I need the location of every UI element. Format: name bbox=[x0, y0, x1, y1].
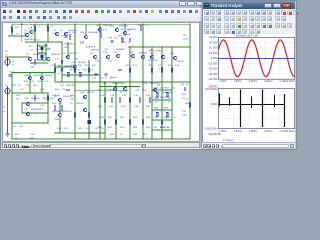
ground bbox=[6, 134, 10, 136]
svg-text:R19: R19 bbox=[16, 95, 21, 97]
svg-text:220: 220 bbox=[154, 117, 158, 119]
svg-text:(8R): (8R) bbox=[185, 103, 190, 105]
svg-text:2N4403C: 2N4403C bbox=[44, 75, 54, 77]
svg-text:Q2: Q2 bbox=[53, 30, 57, 32]
capacitor C17 bbox=[104, 74, 107, 75]
source V1 bbox=[5, 58, 10, 67]
svg-text:40.000: 40.000 bbox=[209, 35, 218, 39]
distortion spikes bbox=[220, 90, 285, 128]
resistor R25 bbox=[115, 120, 117, 124]
resistor R54 bbox=[166, 93, 168, 97]
svg-text:Q18: Q18 bbox=[80, 92, 85, 94]
svg-text:Q16: Q16 bbox=[24, 98, 29, 100]
svg-text:0.33: 0.33 bbox=[122, 95, 127, 97]
svg-text:0.33: 0.33 bbox=[146, 106, 151, 108]
svg-text:2N5884: 2N5884 bbox=[106, 90, 114, 92]
wire bbox=[151, 47, 153, 139]
svg-text:Q16: Q16 bbox=[170, 53, 175, 55]
svg-text:20.000: 20.000 bbox=[209, 46, 218, 50]
svg-text:R14: R14 bbox=[24, 81, 29, 83]
svg-text:2N5401C: 2N5401C bbox=[63, 96, 73, 98]
svg-text:1.1k: 1.1k bbox=[37, 26, 42, 28]
svg-text:R47: R47 bbox=[15, 134, 20, 136]
capacitor C5 bbox=[118, 69, 122, 70]
transistor Q7 bbox=[141, 55, 145, 59]
svg-text:C8A-DR1-C: C8A-DR1-C bbox=[64, 43, 76, 46]
source V2 bbox=[5, 87, 10, 96]
svg-text:2N3996C: 2N3996C bbox=[116, 49, 126, 51]
wire bbox=[11, 73, 13, 94]
svg-text:680: 680 bbox=[31, 67, 35, 69]
wire bbox=[7, 94, 9, 134]
svg-text:2N3904C: 2N3904C bbox=[31, 98, 41, 100]
svg-text:-30.000: -30.000 bbox=[208, 72, 218, 76]
svg-text:-500.000m: -500.000m bbox=[204, 126, 218, 130]
wire bbox=[171, 47, 173, 139]
svg-text:R6 10: R6 10 bbox=[34, 40, 41, 42]
transistor Q16 bbox=[26, 102, 30, 106]
svg-text:4.7k: 4.7k bbox=[133, 65, 138, 67]
svg-text:R42: R42 bbox=[120, 127, 125, 129]
svg-text:2.000m: 2.000m bbox=[264, 130, 272, 133]
svg-text:2.200m: 2.200m bbox=[287, 80, 295, 83]
svg-text:Q6: Q6 bbox=[44, 54, 48, 56]
svg-text:22p: 22p bbox=[19, 126, 23, 128]
svg-text:-20.000: -20.000 bbox=[208, 67, 218, 71]
resistor R28 bbox=[161, 120, 163, 124]
svg-text:BD139C: BD139C bbox=[69, 53, 78, 55]
resistor R29 bbox=[189, 103, 191, 107]
resistor R55 bbox=[156, 113, 158, 117]
svg-text:Q7: Q7 bbox=[62, 53, 66, 55]
resistor R24 bbox=[104, 120, 106, 124]
svg-text:47u: 47u bbox=[40, 109, 44, 111]
resistor R9 bbox=[161, 68, 163, 72]
resistor R6 bbox=[74, 68, 76, 72]
svg-text:R21: R21 bbox=[52, 103, 57, 105]
transistor Q23 bbox=[173, 56, 177, 60]
svg-text:2N3904C: 2N3904C bbox=[90, 50, 100, 52]
diode D7 bbox=[61, 69, 63, 71]
svg-text:2N5884-BIG: 2N5884-BIG bbox=[112, 83, 124, 85]
svg-text:4.7k: 4.7k bbox=[40, 89, 45, 91]
svg-text:C10: C10 bbox=[40, 105, 45, 107]
top plot y-axis labels bbox=[208, 35, 218, 81]
svg-text:0.33: 0.33 bbox=[110, 95, 115, 97]
wire bbox=[34, 24, 36, 42]
transistor Q33 bbox=[58, 113, 62, 117]
wire bbox=[47, 93, 49, 123]
resistor R53 bbox=[156, 93, 158, 97]
svg-text:R48: R48 bbox=[110, 134, 115, 136]
wire bbox=[124, 24, 126, 33]
transistor Q5 bbox=[123, 31, 127, 35]
svg-text:C26: C26 bbox=[30, 134, 35, 136]
svg-text:Q14: Q14 bbox=[60, 85, 65, 87]
waveform distortion baseline bbox=[218, 104, 285, 106]
resistor R17 bbox=[88, 113, 90, 117]
svg-text:1.1k: 1.1k bbox=[50, 26, 55, 28]
wire bbox=[41, 73, 43, 94]
transistor Q13 bbox=[93, 55, 97, 59]
bottom plot grid bbox=[218, 89, 294, 129]
svg-text:BF540C: BF540C bbox=[34, 75, 42, 77]
svg-text:10p: 10p bbox=[47, 48, 51, 50]
svg-text:Q5: Q5 bbox=[60, 30, 64, 32]
svg-text:R49: R49 bbox=[133, 134, 138, 136]
resistor R11 bbox=[129, 68, 131, 72]
svg-text:VP: VP bbox=[5, 51, 8, 53]
svg-text:10: 10 bbox=[173, 117, 176, 119]
transistor Q8 bbox=[150, 55, 154, 59]
svg-text:D2: D2 bbox=[55, 59, 59, 61]
resistor R27 bbox=[142, 120, 144, 124]
wire bbox=[29, 73, 31, 94]
resistor R16 bbox=[74, 113, 76, 117]
svg-text:Q1: Q1 bbox=[24, 30, 28, 32]
svg-text:R26: R26 bbox=[57, 128, 62, 130]
svg-text:Q3: Q3 bbox=[26, 54, 30, 56]
transistor Q31 bbox=[40, 76, 44, 80]
wire bbox=[62, 74, 100, 76]
resistor R3 bbox=[140, 26, 142, 30]
svg-text:0.000: 0.000 bbox=[211, 102, 218, 106]
svg-text:Q13: Q13 bbox=[102, 83, 107, 85]
svg-text:10.000: 10.000 bbox=[209, 51, 218, 55]
svg-text:C17: C17 bbox=[103, 78, 108, 80]
svg-text:2N4403: 2N4403 bbox=[33, 54, 41, 56]
svg-text:BD139C: BD139C bbox=[78, 62, 87, 64]
wire bbox=[22, 112, 48, 114]
svg-text:C8: C8 bbox=[26, 85, 30, 87]
transistor Q15 bbox=[116, 54, 120, 58]
svg-text:R25: R25 bbox=[55, 89, 60, 91]
outer window frame overlay bbox=[0, 0, 297, 150]
svg-text:1k: 1k bbox=[128, 42, 131, 44]
resistor R56 bbox=[166, 113, 168, 117]
svg-text:D1A: D1A bbox=[80, 41, 85, 44]
svg-text:0.33: 0.33 bbox=[146, 95, 151, 97]
svg-text:Q8A: Q8A bbox=[24, 74, 29, 77]
resistor R30 bbox=[11, 28, 13, 32]
svg-text:1k: 1k bbox=[18, 85, 21, 87]
svg-text:0.33: 0.33 bbox=[100, 95, 105, 97]
transistor Q14 bbox=[106, 55, 110, 59]
svg-text:Q20: Q20 bbox=[135, 90, 140, 92]
top plot grid bbox=[218, 37, 294, 79]
wire bbox=[12, 138, 190, 140]
svg-text:10u: 10u bbox=[33, 85, 37, 87]
resistor R21 bbox=[129, 98, 131, 102]
wire bbox=[128, 46, 190, 48]
svg-text:0.33: 0.33 bbox=[109, 106, 114, 108]
svg-text:d(v(OUT)): d(v(OUT)) bbox=[209, 132, 222, 136]
wire bbox=[75, 89, 128, 91]
svg-text:MJL: MJL bbox=[142, 90, 147, 92]
svg-text:(15V): (15V) bbox=[183, 39, 189, 41]
svg-text:BD139: BD139 bbox=[87, 92, 94, 94]
wire bbox=[54, 63, 56, 82]
svg-text:2u: 2u bbox=[168, 102, 171, 104]
transient window right border strip bbox=[295, 1, 297, 149]
resistor R51 bbox=[67, 73, 69, 77]
svg-text:MJL1302C: MJL1302C bbox=[160, 97, 171, 99]
svg-text:R57: R57 bbox=[118, 36, 123, 38]
transistor Q10 bbox=[28, 57, 32, 61]
resistor R12 bbox=[34, 96, 36, 100]
svg-text:0.33: 0.33 bbox=[98, 106, 103, 108]
svg-text:R27: R27 bbox=[78, 128, 83, 130]
svg-text:2N4064A: 2N4064A bbox=[88, 31, 98, 34]
svg-text:500.000m: 500.000m bbox=[205, 87, 218, 91]
wire bbox=[55, 132, 105, 134]
svg-text:R41: R41 bbox=[108, 127, 113, 129]
transistor Q20 bbox=[113, 87, 117, 91]
resistor R13 bbox=[47, 96, 49, 100]
svg-text:1u: 1u bbox=[186, 84, 189, 86]
svg-text:4.7k: 4.7k bbox=[103, 30, 108, 32]
svg-text:Q11: Q11 bbox=[113, 52, 118, 54]
zero reference line (top plot) bbox=[218, 58, 294, 60]
resistor R22 bbox=[139, 98, 141, 102]
wire bbox=[142, 24, 144, 139]
transistor Q9 bbox=[161, 55, 165, 59]
wire bbox=[11, 24, 13, 36]
svg-text:0.000: 0.000 bbox=[211, 56, 218, 60]
svg-text:+0: +0 bbox=[5, 55, 8, 57]
resistor R8 bbox=[151, 68, 153, 72]
bottom plot frame bbox=[218, 89, 294, 129]
svg-text:4.7k: 4.7k bbox=[30, 81, 35, 83]
svg-text:220n: 220n bbox=[126, 34, 132, 36]
svg-text:4.7: 4.7 bbox=[145, 25, 149, 27]
wire bbox=[30, 62, 48, 64]
transistor Q12 bbox=[66, 55, 70, 59]
svg-text:100: 100 bbox=[70, 99, 74, 101]
wire bbox=[21, 24, 23, 42]
svg-text:R52: R52 bbox=[83, 70, 88, 72]
svg-text:R54: R54 bbox=[165, 88, 170, 90]
svg-text:220: 220 bbox=[62, 89, 66, 91]
wire bbox=[11, 93, 13, 139]
resistor R57 bbox=[121, 38, 123, 42]
svg-text:Q11: Q11 bbox=[104, 49, 109, 51]
resistor R23 bbox=[149, 98, 151, 102]
diode D6 bbox=[61, 61, 63, 63]
svg-text:0.33: 0.33 bbox=[134, 106, 139, 108]
transistor Q21 bbox=[123, 87, 127, 91]
wire bbox=[22, 102, 48, 104]
svg-text:D3: D3 bbox=[75, 59, 79, 61]
resistor R15 bbox=[61, 106, 63, 110]
wire bbox=[161, 47, 163, 139]
wire bbox=[59, 117, 61, 133]
svg-text:0.33: 0.33 bbox=[121, 106, 126, 108]
svg-text:1k: 1k bbox=[59, 103, 62, 105]
resistor R5 bbox=[54, 68, 56, 72]
svg-text:-40.000: -40.000 bbox=[208, 77, 218, 81]
svg-text:Q2A: Q2A bbox=[28, 27, 33, 30]
svg-text:V1: V1 bbox=[2, 107, 5, 109]
transistor Q30 bbox=[28, 76, 32, 80]
svg-text:Q15: Q15 bbox=[150, 53, 155, 55]
svg-text:10u: 10u bbox=[20, 89, 24, 91]
transistor Q17 bbox=[26, 112, 30, 116]
svg-text:30.000: 30.000 bbox=[209, 40, 218, 44]
svg-text:sin: sin bbox=[2, 111, 6, 113]
bottom plot x-axis labels bbox=[218, 130, 295, 133]
wire bbox=[55, 66, 75, 68]
bottom plot y-axis labels bbox=[204, 87, 218, 130]
svg-text:0.33: 0.33 bbox=[159, 69, 164, 71]
svg-text:+C7: +C7 bbox=[29, 50, 34, 52]
wire bbox=[5, 56, 30, 58]
svg-text:R19: R19 bbox=[12, 85, 17, 87]
svg-text:Q8: Q8 bbox=[120, 29, 124, 31]
svg-text:C25: C25 bbox=[182, 111, 187, 113]
svg-text:2N3904C: 2N3904C bbox=[51, 54, 61, 56]
wire bbox=[47, 24, 49, 42]
svg-text:BD140C: BD140C bbox=[67, 85, 76, 87]
svg-text:C16: C16 bbox=[92, 78, 97, 80]
svg-text:R33: R33 bbox=[133, 117, 138, 119]
svg-text:C18: C18 bbox=[108, 38, 113, 40]
wire bbox=[61, 42, 63, 82]
wire bbox=[55, 81, 190, 83]
svg-text:V2: V2 bbox=[5, 85, 8, 87]
svg-text:BIG: BIG bbox=[120, 92, 124, 94]
wire bbox=[189, 24, 191, 139]
capacitor C6b (polarized, filled) bbox=[40, 55, 43, 58]
wire bbox=[21, 103, 23, 113]
svg-text:D6.1: D6.1 bbox=[64, 47, 69, 49]
svg-text:1.900m: 1.900m bbox=[249, 130, 257, 133]
svg-text:47u: 47u bbox=[29, 46, 33, 48]
wire bbox=[59, 102, 61, 113]
svg-text:R46: R46 bbox=[182, 94, 187, 96]
svg-text:1N4148: 1N4148 bbox=[76, 103, 84, 105]
wire bbox=[67, 42, 69, 57]
transistor Q32 bbox=[58, 98, 62, 102]
svg-text:2.000m: 2.000m bbox=[264, 80, 272, 83]
wire bbox=[104, 82, 106, 139]
wire ladder around C6 bbox=[38, 43, 47, 60]
svg-text:22k: 22k bbox=[16, 99, 20, 101]
svg-text:100: 100 bbox=[78, 65, 82, 67]
svg-text:R30: R30 bbox=[100, 117, 105, 119]
svg-text:Q12: Q12 bbox=[129, 52, 134, 54]
svg-text:4.7k: 4.7k bbox=[72, 32, 77, 34]
resistor R7 bbox=[88, 68, 90, 72]
transistor Q1 bbox=[25, 33, 29, 37]
svg-text:VP: VP bbox=[16, 34, 19, 36]
svg-text:MJL4281C: MJL4281C bbox=[148, 60, 159, 62]
svg-text:1.900m: 1.900m bbox=[249, 80, 257, 83]
svg-text:8R: 8R bbox=[143, 134, 146, 136]
svg-text:0.22: 0.22 bbox=[171, 88, 176, 90]
svg-text:R43: R43 bbox=[133, 127, 138, 129]
capacitor C4 bbox=[66, 89, 70, 90]
svg-text:-10.000: -10.000 bbox=[208, 61, 218, 65]
capacitor C6 (polarized, filled) bbox=[40, 47, 43, 50]
wire bbox=[12, 72, 55, 74]
svg-text:R16: R16 bbox=[149, 65, 154, 67]
svg-text:100: 100 bbox=[90, 70, 94, 72]
svg-text:D1: D1 bbox=[70, 103, 74, 105]
transistor Q27 bbox=[84, 35, 88, 39]
svg-text:Q9: Q9 bbox=[90, 53, 94, 55]
svg-text:R55: R55 bbox=[154, 108, 159, 110]
resistor R10 bbox=[171, 68, 173, 72]
resistor R52 bbox=[79, 73, 81, 77]
wire bbox=[88, 60, 90, 139]
svg-text:2N3904C: 2N3904C bbox=[119, 26, 129, 28]
svg-text:Q10: Q10 bbox=[103, 52, 108, 54]
capacitor C7 (polarized, filled) bbox=[88, 120, 91, 124]
resistor R1 bbox=[34, 27, 36, 31]
svg-text:VN: VN bbox=[183, 35, 186, 37]
svg-text:R56: R56 bbox=[164, 108, 169, 110]
svg-text:220: 220 bbox=[76, 70, 80, 72]
svg-text:1.800m: 1.800m bbox=[234, 130, 242, 133]
svg-text:R31: R31 bbox=[108, 117, 113, 119]
svg-text:Q15: Q15 bbox=[143, 83, 148, 85]
capacitor C1 bbox=[41, 56, 42, 60]
capacitor C18 bbox=[110, 41, 113, 42]
svg-text:0.1: 0.1 bbox=[155, 102, 159, 104]
svg-text:10k: 10k bbox=[50, 98, 54, 100]
transistor Q6 bbox=[131, 54, 135, 58]
svg-text:MUR120: MUR120 bbox=[160, 127, 169, 129]
transistor Q19 bbox=[83, 108, 87, 112]
svg-text:47p: 47p bbox=[114, 38, 118, 40]
svg-text:MJL43: MJL43 bbox=[177, 61, 184, 63]
wire bbox=[12, 23, 190, 25]
resistor R14 bbox=[54, 106, 56, 110]
wire bbox=[129, 47, 131, 139]
svg-text:0.1: 0.1 bbox=[120, 134, 124, 136]
wire bbox=[74, 24, 76, 139]
svg-text:R53: R53 bbox=[154, 88, 159, 90]
svg-text:100n: 100n bbox=[182, 115, 188, 117]
waveform v(OUT) red sine bbox=[218, 40, 294, 77]
wire bbox=[85, 24, 87, 35]
svg-text:+C5: +C5 bbox=[66, 32, 71, 34]
svg-text:47u: 47u bbox=[36, 49, 40, 51]
svg-text:MJL1302C: MJL1302C bbox=[163, 92, 174, 94]
resistor R2 bbox=[47, 27, 49, 31]
svg-text:1.700m: 1.700m bbox=[218, 80, 226, 83]
transistor Q24 bbox=[115, 28, 119, 32]
resistor R4 bbox=[34, 60, 36, 64]
svg-text:2N5401C: 2N5401C bbox=[63, 111, 73, 113]
transistor Q2 bbox=[55, 32, 59, 36]
transistor Q3 bbox=[64, 32, 68, 36]
svg-text:Q19: Q19 bbox=[110, 26, 115, 28]
resistor R18 bbox=[104, 98, 106, 102]
capacitor C16 bbox=[94, 74, 97, 75]
wire bbox=[25, 41, 62, 43]
svg-text:R1: R1 bbox=[12, 61, 16, 63]
svg-text:R34: R34 bbox=[146, 117, 151, 119]
capacitor C2 bbox=[129, 38, 130, 42]
svg-text:10k: 10k bbox=[15, 27, 19, 29]
svg-text:R32: R32 bbox=[120, 117, 125, 119]
svg-text:C24: C24 bbox=[180, 84, 185, 86]
svg-text:D8: D8 bbox=[154, 127, 158, 129]
svg-text:4.7k: 4.7k bbox=[44, 81, 49, 83]
svg-text:220: 220 bbox=[64, 128, 68, 130]
